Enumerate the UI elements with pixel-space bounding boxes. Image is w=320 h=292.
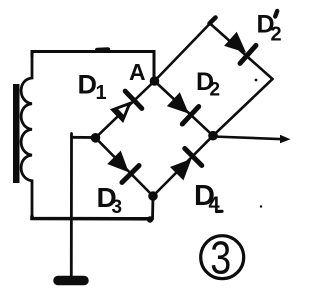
svg-text:3: 3 bbox=[210, 232, 231, 284]
wire peak stub bbox=[210, 18, 216, 24]
transformer core bar bbox=[13, 84, 20, 183]
wire top (secondary top to bridge) bbox=[32, 52, 154, 78]
svg-text:D: D bbox=[78, 70, 98, 100]
ground bbox=[58, 276, 84, 286]
speck right of D4 bbox=[260, 205, 262, 207]
inductor L1 (transformer secondary coil) bbox=[21, 54, 32, 217]
svg-text:A: A bbox=[129, 59, 146, 85]
svg-text:4: 4 bbox=[209, 194, 221, 216]
figure number circle bbox=[201, 236, 244, 279]
diode D2 bbox=[165, 90, 199, 124]
wire output arrow bbox=[213, 137, 286, 140]
wire left node to ground branch bbox=[72, 136, 96, 139]
node left junction dot bbox=[91, 133, 101, 143]
node right junction dot bbox=[208, 131, 218, 141]
wire peak to outer right corner (D2' branch) bbox=[210, 24, 273, 80]
diode D1 (hollow triangle) bbox=[108, 91, 142, 125]
junction blob bottom wire bbox=[147, 216, 153, 222]
prime mark of D2' bbox=[275, 11, 277, 17]
wire outer right corner to right node bbox=[213, 79, 273, 136]
wire D4 arm (bottom node to right node) bbox=[153, 136, 213, 196]
wire ground vertical bbox=[70, 134, 73, 277]
wire bottom (secondary bottom to bridge bottom) bbox=[32, 217, 152, 219]
wire A to outer peak bbox=[155, 24, 211, 82]
svg-text:3: 3 bbox=[112, 197, 123, 218]
svg-text:2: 2 bbox=[271, 24, 282, 46]
diode D3 bbox=[105, 149, 139, 183]
svg-text:2: 2 bbox=[210, 80, 221, 101]
wire D1 arm (left node to A) bbox=[96, 81, 155, 138]
diode D4 bbox=[168, 149, 202, 183]
node A junction dot bbox=[150, 76, 160, 86]
wire D2 arm (A to right node) bbox=[155, 81, 214, 136]
node bottom junction dot bbox=[148, 191, 158, 201]
speck near outer corner bbox=[255, 79, 258, 82]
wire bridge bottom node to bottom wire bbox=[151, 196, 154, 219]
diode D2' bbox=[222, 30, 256, 64]
svg-text:1: 1 bbox=[96, 82, 107, 104]
wire D3 arm (left node to bottom node) bbox=[96, 138, 154, 196]
wire blob on top wire bbox=[97, 47, 108, 52]
dash above circle bbox=[217, 210, 223, 213]
